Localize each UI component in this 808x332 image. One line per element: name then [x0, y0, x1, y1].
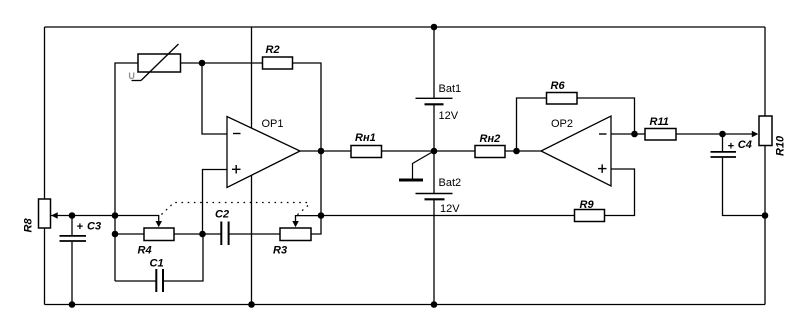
junction R6/R11/OP2- [631, 131, 638, 138]
svg-text:C1: C1 [150, 258, 164, 270]
ground [399, 151, 434, 180]
wire C1 right lead up to C2 node [163, 234, 203, 281]
svg-text:R9: R9 [580, 199, 595, 211]
wire varistor branch down to R4 left [114, 216, 116, 235]
wire Rn1 right to battery node [382, 150, 435, 152]
varistor Ru (voltage dependent resistor) [138, 54, 181, 72]
junction C3 bottom rail [69, 301, 76, 308]
wire R11 right to C4 node [676, 133, 723, 135]
capacitor C3 (electrolytic) [60, 236, 87, 241]
svg-text:Bat2: Bat2 [439, 177, 462, 189]
wire C2 node down branch to C1 [114, 234, 116, 281]
wire Bat2 bottom to bottom rail [433, 200, 435, 305]
wire C3 bottom lead [71, 242, 73, 305]
svg-text:R8: R8 [23, 218, 35, 233]
wire varistor right lead to node A [181, 62, 203, 64]
svg-text:C4: C4 [738, 139, 752, 151]
svg-text:+: + [77, 221, 84, 233]
wire R3 right lead up to node B [311, 216, 321, 235]
op-amp OP1 [227, 117, 300, 188]
R10 wiper arrowhead [752, 131, 759, 137]
wire C3 top lead [71, 216, 73, 236]
svg-text:R11: R11 [650, 116, 669, 128]
junction Bat1 top rail [431, 24, 438, 31]
svg-text:+: + [728, 141, 735, 153]
wire C1 left lead [115, 280, 156, 282]
wire left rail lower [44, 228, 46, 305]
junction Bat2 bottom rail [431, 301, 438, 308]
wire Bat1 top lead [433, 27, 435, 98]
resistor R11 [645, 129, 676, 141]
wire mid node to Bat2 [433, 151, 435, 193]
svg-text:R10: R10 [775, 135, 787, 156]
wire R6 right to OP2 inverting node [577, 98, 635, 134]
R4 wiper arrowhead [156, 221, 163, 227]
wire bottom rail [45, 304, 766, 306]
capacitor C1 [156, 269, 163, 292]
wire R4 right lead to C2 node [174, 233, 203, 235]
junction node B R3 wiper / R9 line [318, 212, 325, 219]
OP1 minus sign [233, 133, 241, 135]
junction R4 right / C2 / OP1+ [199, 231, 206, 238]
svg-text:C3: C3 [87, 221, 101, 233]
resistor Rn2 [475, 146, 505, 158]
dotted gang coupling line R4-R3 [162, 203, 310, 216]
OP2 minus sign [599, 133, 607, 135]
wire mid vertical from top rail to bottom rail [251, 27, 253, 305]
wire C4 node to R10 wiper arrow [723, 133, 754, 135]
wire C3 node to R4 net [72, 215, 115, 217]
junction battery mid node [431, 148, 438, 155]
battery Bat2 [416, 194, 453, 200]
wire mid node to Rn2 [434, 150, 475, 152]
wire OP1 output node down to node B [320, 151, 322, 216]
resistor Rn1 [351, 146, 382, 158]
junction node A (varistor/R2/OP1-) [199, 60, 206, 67]
junction R8 wiper / C3 [69, 212, 76, 219]
svg-text:OP1: OP1 [262, 118, 284, 130]
wire R3 wiper line [296, 216, 322, 223]
resistor R9 [575, 210, 605, 222]
wire C4 top lead [722, 134, 724, 151]
wire node A down to OP1 inverting input [202, 63, 227, 134]
junction R11/C4 [719, 131, 726, 138]
svg-text:Bat1: Bat1 [439, 83, 462, 95]
OP1 plus sign [232, 168, 241, 170]
wire C2 right to R3 left [229, 233, 281, 235]
wire R8 wiper to C3 node [51, 215, 72, 217]
resistor R2 [263, 57, 293, 69]
wire top rail to R10 [764, 27, 766, 116]
R3 wiper arrowhead [292, 221, 299, 227]
svg-text:R3: R3 [273, 245, 287, 257]
wire Rn2 right to OP2 output [505, 150, 541, 152]
svg-text:R4: R4 [138, 245, 152, 257]
potentiometer R4 [144, 228, 174, 241]
svg-text:OP2: OP2 [551, 118, 573, 130]
resistor R6 [547, 93, 578, 105]
wire OP1 noninverting input [203, 170, 228, 235]
wire OP2 noninverting input stub down to R9 line [605, 169, 635, 216]
svg-text:12V: 12V [440, 203, 460, 215]
svg-text:12V: 12V [439, 110, 459, 122]
wire top rail [45, 26, 766, 28]
wire R4 left lead [115, 233, 144, 235]
potentiometer R3 [280, 228, 311, 241]
svg-text:Rн2: Rн2 [480, 133, 501, 145]
wire R10 bottom to node C [764, 146, 766, 216]
wire OP2 output node up to R6 left [517, 98, 547, 151]
wire C2 left lead [203, 233, 222, 235]
wire node C to bottom rail [764, 216, 766, 305]
wire OP1 output [300, 150, 351, 152]
svg-text:U: U [128, 71, 135, 81]
junction varistor branch / wiper line [112, 212, 119, 219]
wire Bat1 bottom to mid node [433, 105, 435, 152]
battery Bat1 [416, 98, 453, 104]
junction Rn2/R6/OP2 output [513, 148, 520, 155]
junction varistor branch / R4 left [112, 231, 119, 238]
wire varistor left lead [115, 63, 138, 216]
svg-text:C2: C2 [215, 209, 229, 221]
wire OP2 inverting input stub [611, 133, 635, 135]
potentiometer R10 (vertical) [759, 116, 772, 146]
wire node B to R9 left [321, 215, 575, 217]
svg-text:Rн1: Rн1 [355, 132, 376, 144]
svg-text:R6: R6 [551, 80, 566, 92]
wire R2 right down to OP1 output node [293, 63, 322, 151]
junction R10 bottom / C4 bottom [762, 212, 769, 219]
wire R4 wiper line [115, 216, 159, 223]
wire C4 bottom lead to node C [723, 158, 766, 216]
wire node A to R2 left [202, 62, 263, 64]
op-amp OP2 (mirrored, output left) [541, 116, 611, 186]
junction mid vertical bottom rail [248, 301, 255, 308]
capacitor C2 [221, 222, 228, 246]
potentiometer R8 (vertical, in left rail) [39, 199, 51, 228]
junction OP1 output [318, 148, 325, 155]
R8 wiper arrowhead [51, 212, 58, 218]
wire left rail upper [44, 27, 46, 199]
wire R6/R11 node to R11 [635, 133, 646, 135]
capacitor C4 (electrolytic) [711, 152, 737, 157]
svg-text:R2: R2 [266, 44, 280, 56]
OP2 plus sign [598, 168, 607, 170]
